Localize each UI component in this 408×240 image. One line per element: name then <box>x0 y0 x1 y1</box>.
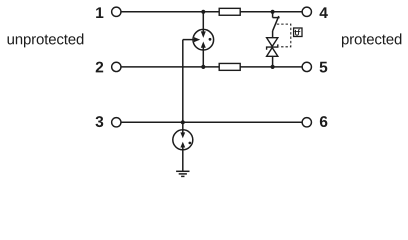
theta symbol <box>295 29 301 35</box>
wire blade to TVS diode <box>272 31 274 38</box>
ground symbol <box>176 171 189 176</box>
terminal label 6 <box>320 116 327 127</box>
wire TVS branch stub from line1 <box>272 12 274 18</box>
wire bottom gas tube to ground <box>182 147 184 172</box>
wire TVS diode to line2 <box>272 56 274 67</box>
junction node on line1 at TVS branch <box>271 10 275 14</box>
dashed thermal linkage <box>277 24 291 47</box>
terminal label 1 <box>96 7 103 18</box>
thermal disconnect fixed contact tick <box>273 17 280 19</box>
TVS suppressor diode (bidirectional) <box>267 38 278 57</box>
GDT F2 bottom electrode arrow <box>180 142 185 150</box>
GDT F2 gas dot <box>189 142 192 145</box>
junction node on line2 at TVS branch <box>271 65 275 69</box>
terminal label 4 <box>320 7 328 18</box>
gas discharge tube F2 (2-electrode) circle <box>173 130 193 150</box>
thermal disconnect switch blade <box>273 16 279 31</box>
terminal 1 circle <box>112 7 121 16</box>
wire vertical GDT branch top (line1 to gas tube) <box>202 12 204 34</box>
junction node on line2 at GDT branch <box>201 65 205 69</box>
resistor R on line 2 <box>219 63 240 70</box>
terminal 5 circle <box>302 62 311 71</box>
theta temperature box <box>294 28 302 37</box>
terminal 2 circle <box>112 62 121 71</box>
wire left electrode drop to line 3 <box>182 40 184 123</box>
gas discharge tube F1 (3-electrode) circle <box>193 29 214 50</box>
wire line 3 (terminal 3 to terminal 6) <box>121 121 302 123</box>
GDT F1 top electrode arrow <box>201 29 206 38</box>
resistor R on line 1 <box>219 8 240 15</box>
label unprotected side <box>8 33 84 47</box>
GDT F1 gas dot <box>209 38 212 41</box>
GDT F2 top electrode arrow <box>180 130 185 139</box>
GDT F1 left electrode arrow <box>193 37 200 42</box>
junction node on line3 at earth branch <box>181 120 185 124</box>
wire vertical GDT branch bottom (gas tube to line2) <box>202 49 204 67</box>
wire GDT left electrode stub <box>183 39 197 41</box>
junction node on line1 at GDT branch <box>201 10 205 14</box>
wire line 2 (terminal 2 to terminal 5) <box>121 66 302 68</box>
wire line 1 (terminal 1 to terminal 4) <box>121 11 302 13</box>
terminal label 2 <box>96 62 103 73</box>
terminal label 5 <box>320 62 328 73</box>
GDT F1 bottom electrode arrow <box>201 42 206 51</box>
wire earth branch (line3 down to bottom gas tube) <box>182 122 184 135</box>
terminal label 3 <box>96 116 104 127</box>
terminal 3 circle <box>112 118 121 127</box>
label protected side <box>342 33 401 47</box>
terminal 4 circle <box>302 7 311 16</box>
terminal 6 circle <box>302 118 311 127</box>
